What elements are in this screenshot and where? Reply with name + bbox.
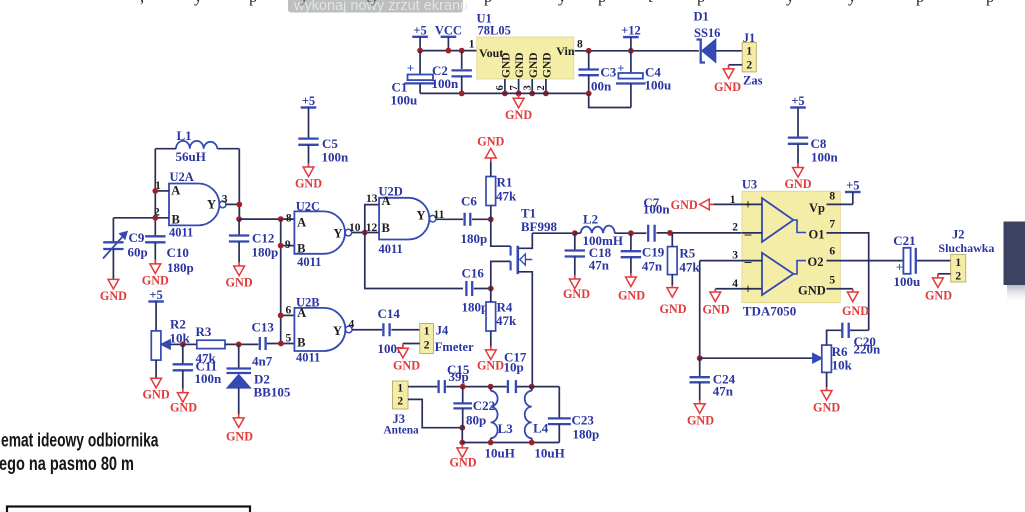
node: C6/R1/T1-g1: [488, 216, 494, 222]
wire: U2C output to U2D inputs: [352, 232, 379, 234]
svg-text:t: t: [648, 0, 653, 6]
svg-text:220n: 220n: [854, 341, 882, 356]
svg-text:R3: R3: [196, 324, 212, 339]
nand gate U2A (4011): [169, 184, 226, 226]
svg-text:Y: Y: [334, 226, 343, 240]
svg-text:3: 3: [732, 250, 738, 262]
node: C22 bottom / antenna gnd: [459, 425, 465, 431]
U1 GND pin 7 (rotated label + lead): [509, 52, 526, 93]
svg-text:00n: 00n: [591, 79, 612, 94]
shadow under navy rectangle: [1007, 285, 1025, 304]
svg-text:4n7: 4n7: [252, 353, 273, 368]
svg-text:R2: R2: [170, 316, 186, 331]
capacitor C22 80p: [453, 387, 472, 428]
svg-text:GND: GND: [449, 455, 476, 469]
svg-text:100n: 100n: [643, 202, 671, 217]
node: T1 drain / L2 / C18: [572, 230, 578, 236]
ground below antenna node: [449, 443, 476, 470]
capacitor C17 10p: [508, 380, 516, 393]
potentiometer R6 10k: [822, 330, 842, 387]
U1 voltage regulator 78L05 body: [477, 37, 574, 79]
svg-text:y: y: [300, 0, 309, 6]
ground below D2: [226, 414, 253, 444]
svg-text:y: y: [848, 0, 857, 6]
svg-text:GND: GND: [542, 52, 554, 78]
svg-text:5: 5: [285, 333, 291, 345]
capacitor C23 180p: [548, 387, 571, 443]
nand gate U2C (4011): [294, 211, 351, 253]
connector J4 body: [420, 324, 434, 354]
svg-text:GND: GND: [505, 108, 532, 122]
node: U2D pin 12 junction: [362, 230, 368, 236]
capacitor C5 100n with +5: [301, 94, 317, 139]
cropped text line descenders (top edge): [140, 0, 994, 6]
node: L3 bottom: [488, 440, 494, 446]
U3 pin 2 line + minus: [742, 226, 762, 241]
svg-text:+: +: [744, 197, 752, 212]
svg-text:10uH: 10uH: [485, 445, 515, 460]
ground below C8: [784, 144, 811, 191]
inductor L1 56uH: [155, 141, 239, 149]
svg-text:39p: 39p: [449, 369, 469, 384]
svg-text:GND: GND: [170, 401, 197, 415]
svg-text:TDA7050: TDA7050: [743, 303, 796, 318]
svg-text:9: 9: [285, 239, 291, 251]
connector J2 body: [951, 255, 966, 282]
node: +5 / C1 junction: [417, 48, 423, 54]
svg-text:+5: +5: [302, 94, 315, 108]
resistor R3 47k (horizontal): [197, 340, 225, 348]
connector J1 body: [742, 43, 756, 72]
svg-text:A: A: [171, 183, 180, 197]
node: VCC junction: [446, 48, 452, 54]
U3 pin 1 line + plus: [715, 197, 763, 212]
capacitor C11 100n: [173, 344, 193, 388]
svg-text:47n: 47n: [713, 384, 734, 399]
wire: U2D output to C6: [436, 218, 463, 220]
svg-text:GND: GND: [702, 303, 729, 317]
svg-text:+: +: [896, 260, 903, 275]
svg-text:47k: 47k: [679, 259, 700, 274]
wire: C3/C4 bottom loop: [589, 93, 631, 107]
svg-text:4011: 4011: [169, 225, 193, 239]
svg-text:+: +: [407, 61, 414, 76]
ground below R5: [659, 285, 686, 316]
wire: wiper node to R3: [183, 343, 197, 345]
node: R3/D2/C13: [236, 342, 242, 348]
svg-text:GND: GND: [226, 430, 253, 444]
svg-text:180p: 180p: [167, 260, 194, 275]
svg-text:1: 1: [730, 194, 736, 206]
svg-text:4: 4: [349, 318, 355, 330]
svg-text:y: y: [194, 0, 203, 6]
inductor L3 10uH: [491, 387, 498, 443]
svg-text:10k: 10k: [832, 358, 853, 373]
capacitor C12 180p: [229, 219, 249, 262]
svg-text:GND: GND: [143, 387, 170, 401]
op-amp A output jog: [793, 220, 806, 233]
wire: U3 pin 6 O2 to C21: [827, 260, 903, 262]
resistor R5 47k: [668, 233, 678, 285]
diode D1 SS16 (schottky): [697, 40, 743, 63]
wire: L1 right leg down to U2A output: [238, 149, 240, 219]
inductor L2 100mH: [581, 226, 615, 234]
svg-text:2: 2: [732, 222, 738, 234]
svg-text:60p: 60p: [128, 245, 148, 260]
wire: U2B output to C14: [352, 329, 382, 331]
svg-text:L2: L2: [583, 212, 598, 227]
svg-text:+5: +5: [149, 288, 162, 302]
svg-text:6: 6: [829, 245, 835, 257]
svg-text:A: A: [297, 216, 306, 230]
svg-text:GND: GND: [501, 52, 513, 78]
capacitor C3 100n: [579, 51, 599, 94]
svg-text:180p: 180p: [462, 299, 489, 314]
wire: feedback node to R6 wiper: [700, 357, 813, 359]
wire: J1 pin 2 to ground: [729, 64, 743, 66]
capacitor C20 220n: [842, 323, 848, 338]
svg-text:+: +: [744, 282, 752, 297]
svg-text:+5: +5: [846, 179, 859, 193]
svg-text:C12: C12: [252, 231, 274, 246]
svg-text:13: 13: [366, 193, 378, 205]
svg-text:L4: L4: [533, 420, 549, 435]
node: C12 top: [236, 216, 242, 222]
wire: C20 to O1 branch: [850, 329, 869, 331]
svg-text:emat ideowy odbiornika: emat ideowy odbiornika: [1, 431, 159, 452]
ground below C9: [100, 279, 127, 303]
svg-text:ty: ty: [366, 0, 380, 6]
svg-text:1: 1: [397, 383, 403, 395]
wire: R3 to D2/C13 node: [225, 343, 258, 345]
svg-text:–: –: [744, 226, 752, 241]
svg-text:ego na pasmo 80 m: ego na pasmo 80 m: [0, 454, 134, 475]
svg-text:47k: 47k: [496, 188, 517, 203]
svg-text:O1: O1: [809, 228, 825, 242]
svg-text:100u: 100u: [894, 274, 921, 289]
svg-text:y: y: [786, 0, 795, 6]
capacitor C10 180p: [145, 236, 165, 242]
svg-text:1: 1: [955, 257, 961, 269]
svg-text:GND: GND: [514, 52, 526, 78]
node: U2B pin 5: [278, 341, 284, 347]
svg-text:B: B: [172, 213, 180, 227]
svg-text:4011: 4011: [297, 255, 321, 269]
ground below C11: [170, 389, 197, 415]
svg-text:180p: 180p: [461, 231, 488, 246]
ground below U1 rail: [505, 93, 532, 122]
capacitor C14 100n: [383, 323, 389, 336]
U1 GND pin 3 (rotated label + lead): [522, 52, 539, 93]
svg-text:10p: 10p: [504, 359, 524, 374]
svg-text:C19: C19: [642, 245, 665, 260]
wire: U3 pin 7 O1 to C20: [827, 233, 869, 330]
wire: U2D node down to C16 run: [365, 233, 463, 289]
svg-text:p: p: [916, 0, 924, 6]
svg-text:R1: R1: [497, 175, 513, 190]
svg-text:100n: 100n: [322, 150, 350, 165]
node: C2 bottom on rail: [459, 91, 465, 97]
svg-text:Sluchawka: Sluchawka: [938, 241, 994, 255]
R6 wiper arrow: [813, 353, 822, 363]
svg-text:GND: GND: [477, 134, 504, 148]
wire: J4 pin 2 to ground: [403, 343, 420, 345]
transistor T1 BF998 dual-gate MOSFET: [491, 219, 533, 386]
svg-text:+5: +5: [413, 23, 426, 37]
svg-text:J1: J1: [743, 31, 756, 45]
node: C16/R4/T1-g2: [488, 286, 494, 292]
power +5 (left of VCC): [412, 23, 428, 50]
svg-text:12: 12: [366, 222, 378, 234]
svg-text:180p: 180p: [573, 426, 600, 441]
svg-text:B: B: [297, 336, 305, 350]
svg-text:80p: 80p: [466, 413, 486, 428]
ground at U3 pin 5: [842, 289, 869, 318]
U3 audio amplifier TDA7050 body: [742, 191, 840, 303]
capacitor C13 4n7: [260, 337, 266, 350]
capacitor C6 180p: [465, 213, 471, 226]
node: U1 GND pin 3 on rail: [529, 91, 535, 97]
ground below C10: [142, 242, 169, 287]
nand gate U2B (4011): [294, 308, 352, 351]
wire: U2C input tie vertical: [280, 219, 282, 343]
svg-text:B: B: [382, 221, 390, 235]
node: R2 wiper / R3 / C11: [180, 342, 186, 348]
wire: C12 node to U2C inputs: [239, 218, 294, 220]
svg-text:A: A: [297, 306, 306, 320]
svg-text:1: 1: [746, 46, 752, 58]
svg-text:100u: 100u: [391, 93, 418, 108]
svg-text:p: p: [598, 0, 606, 6]
svg-text:8: 8: [577, 38, 583, 50]
capacitor C19 47n: [621, 233, 641, 257]
ground below R2: [143, 378, 170, 401]
node: L4 bottom: [529, 440, 535, 446]
ground above R1: [477, 134, 504, 176]
ground below C5: [295, 145, 322, 191]
wire: U2B pin 5 stub: [267, 343, 295, 345]
svg-text:R5: R5: [679, 245, 695, 260]
variable capacitor C9 60p: [103, 218, 127, 279]
node: L4 top / T1 source: [529, 384, 535, 390]
svg-text:Y: Y: [417, 209, 426, 223]
node: U1 GND pin 6 on rail: [502, 91, 508, 97]
svg-text:p: p: [697, 0, 705, 6]
wire: C14 to J4 pin 1: [391, 329, 419, 331]
watermark overlay box: [288, 0, 468, 14]
node: C3 bottom on rail: [586, 91, 592, 97]
svg-text:GND: GND: [925, 288, 952, 302]
node: gnd rail left: [459, 440, 465, 446]
svg-text:D1: D1: [694, 10, 709, 24]
svg-text:p: p: [986, 0, 994, 6]
wire: J3 pin 2 path: [408, 399, 462, 427]
svg-text:4011: 4011: [379, 242, 403, 256]
svg-text:BB105: BB105: [254, 385, 291, 400]
ground at J4 pin 2: [393, 344, 420, 373]
op-amp A (U3 upper): [762, 198, 793, 242]
svg-text:2: 2: [955, 271, 961, 283]
node: C19 top: [628, 230, 634, 236]
ground at J2 pin 2: [925, 274, 952, 303]
svg-text:GND: GND: [100, 289, 127, 303]
wire: U2A output to C12 node: [226, 204, 239, 219]
svg-text:y: y: [558, 0, 567, 6]
svg-text:GND: GND: [798, 284, 826, 298]
node: R5 top: [667, 230, 673, 236]
wire: C22 bottom to rail: [461, 428, 463, 443]
svg-text:BF998: BF998: [521, 219, 558, 234]
capacitor C15 39p: [439, 380, 445, 393]
resistor R1 47k: [486, 177, 496, 220]
U3 pin 3 line + minus: [700, 254, 762, 269]
svg-text:GND: GND: [563, 287, 590, 301]
node: +12 / C4 junction: [628, 48, 634, 54]
svg-text:C3: C3: [600, 65, 616, 80]
nand gate U2D (4011): [379, 198, 436, 240]
wire: C15 to input tank rail: [446, 386, 506, 388]
U3 pin 4 line + plus: [715, 282, 762, 297]
node: U1 GND pin 7 on rail: [516, 91, 522, 97]
capacitor C21 (electrolytic 100u): [896, 248, 916, 275]
svg-text:3: 3: [222, 193, 228, 205]
capacitor C18 47n: [565, 233, 585, 256]
wire: J3 pin 1 to C15: [408, 386, 437, 388]
node: U2A output pin 3: [236, 202, 242, 208]
svg-text:GND: GND: [528, 52, 540, 78]
ground at U3 pin 1 (left arrow): [671, 198, 715, 212]
svg-text:L1: L1: [177, 128, 192, 143]
svg-text:–: –: [744, 254, 752, 269]
svg-text:4: 4: [732, 278, 738, 290]
U1 GND pin 2 (rotated label + lead): [536, 52, 553, 93]
power +5 at U3 pin 8: [845, 179, 861, 205]
ground at J1 pin 2: [714, 65, 741, 94]
svg-text:56uH: 56uH: [176, 149, 206, 164]
potentiometer R2 10k with +5: [148, 288, 164, 331]
svg-text:GND: GND: [842, 304, 869, 318]
svg-text:1: 1: [424, 326, 430, 338]
navy inset rectangle (right edge): [1004, 222, 1025, 286]
svg-text:,: ,: [140, 0, 144, 6]
svg-text:C9: C9: [129, 230, 145, 245]
svg-text:100n: 100n: [432, 76, 460, 91]
wire: C2 top lead: [461, 51, 463, 69]
svg-text:100n: 100n: [195, 371, 223, 386]
resistor R4 47k: [486, 289, 496, 347]
svg-text:100n: 100n: [811, 150, 839, 165]
capacitor C1 (electrolytic 100u): [405, 51, 435, 94]
op-amp B output jog: [793, 261, 806, 274]
node: U1 GND pin 2 on rail: [543, 91, 549, 97]
capacitor C16 180p: [466, 281, 472, 296]
svg-text:J4: J4: [436, 323, 449, 337]
node: C2 top junction: [459, 48, 465, 54]
svg-text:p: p: [484, 0, 492, 6]
capacitor C4 (electrolytic 100u): [616, 51, 646, 108]
wire: C16 to T1 g2 node: [474, 288, 491, 290]
node: U2B pin 6: [278, 313, 284, 319]
U1 GND pin 6 (rotated label + lead): [495, 52, 512, 93]
svg-text:7: 7: [829, 219, 835, 231]
capacitor C2 100n: [452, 70, 472, 76]
svg-text:SS16: SS16: [694, 26, 720, 40]
svg-text:Fmeter: Fmeter: [435, 340, 474, 354]
capacitor C24 47n: [690, 358, 710, 400]
svg-text:GND: GND: [671, 198, 698, 212]
svg-text:GND: GND: [226, 276, 253, 290]
svg-text:GND: GND: [687, 414, 714, 428]
wire: J2 pin 2 to ground: [938, 273, 951, 275]
bottom frame rectangle (cropped): [7, 507, 250, 512]
wire: U1 ground rail: [420, 92, 589, 94]
wire: U2C pin 9 stub: [281, 245, 295, 247]
svg-text:10k: 10k: [170, 330, 191, 345]
svg-text:47n: 47n: [642, 259, 663, 274]
svg-text:2: 2: [746, 60, 752, 72]
wire: U1 pin 8 Vin to +12 rail: [575, 50, 699, 52]
wire: C21 to J2 pin 1: [917, 260, 951, 262]
svg-text:Zas: Zas: [743, 73, 763, 87]
capacitor C7 100n: [648, 225, 654, 242]
svg-text:GND: GND: [477, 358, 504, 372]
svg-text:U2C: U2C: [296, 199, 320, 213]
svg-text:GND: GND: [393, 359, 420, 373]
svg-text:Y: Y: [333, 324, 342, 338]
wire: U2A pin 2 / B input: [113, 217, 169, 219]
svg-text:C14: C14: [378, 306, 401, 321]
svg-text:C22: C22: [473, 398, 495, 413]
op-amp B (U3 lower): [762, 253, 793, 295]
svg-text:Antena: Antena: [384, 425, 419, 437]
ground below C18: [563, 257, 590, 301]
connector J3 body: [393, 381, 409, 409]
svg-text:GND: GND: [714, 80, 741, 94]
svg-text:U2A: U2A: [170, 170, 194, 184]
svg-text:GND: GND: [295, 177, 322, 191]
ground at U3 pin 4: [702, 289, 729, 317]
node: feedback / C24 / R6: [697, 355, 703, 361]
svg-text:GND: GND: [659, 302, 686, 316]
wire: C6 to T1 g1 node: [472, 218, 491, 220]
svg-text:Vin: Vin: [556, 44, 575, 58]
wire: C17 to L4 and right branch: [517, 386, 559, 388]
wire: U2D pin 13 loop: [365, 205, 379, 233]
ground below R6: [813, 387, 840, 415]
wire: U2B input tie from vertical: [281, 314, 295, 316]
svg-text:L3: L3: [498, 421, 514, 436]
svg-text:p: p: [249, 0, 257, 6]
svg-text:Vp: Vp: [809, 201, 825, 215]
svg-text:U3: U3: [742, 178, 757, 192]
svg-text:2: 2: [397, 396, 403, 408]
U3 pin 8 line: [827, 203, 853, 205]
svg-text:180p: 180p: [252, 244, 279, 259]
svg-text:4011: 4011: [296, 350, 320, 364]
svg-text:Y: Y: [207, 197, 216, 211]
svg-text:J2: J2: [952, 227, 965, 241]
U3 pin 5 line: [827, 288, 853, 290]
wire: top rail +5/VCC to U1 pin 1 Vout: [420, 50, 477, 52]
svg-text:10uH: 10uH: [534, 445, 564, 460]
node: U2C pin 8: [278, 216, 284, 222]
svg-text:O2: O2: [808, 255, 824, 269]
node: U2A pin 1: [152, 188, 158, 194]
ground below C12: [226, 262, 253, 290]
wire: U3 pin 3 feedback down: [699, 261, 701, 359]
svg-text:6: 6: [285, 305, 291, 317]
node: L3 top: [488, 384, 494, 390]
